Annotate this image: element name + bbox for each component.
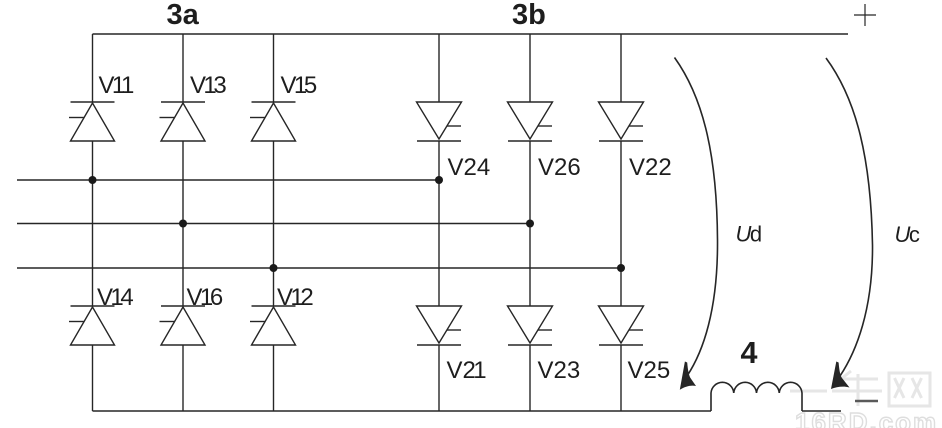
wire V21 branch lower xyxy=(438,345,440,411)
svg-text:V16: V16 xyxy=(187,284,224,311)
svg-text:V23: V23 xyxy=(538,357,581,384)
wire V24 branch upper xyxy=(438,34,440,102)
thyristor V13 xyxy=(160,102,206,141)
arrow curve Ud xyxy=(675,58,718,377)
thyristor V11 xyxy=(69,102,115,141)
wire V11 branch mid xyxy=(92,141,94,306)
svg-text:V13: V13 xyxy=(190,72,227,99)
wire phase a input xyxy=(17,179,439,181)
node phase b V13 xyxy=(179,220,187,228)
svg-text:16RD.com: 16RD.com xyxy=(795,407,938,428)
wire V12 branch lower xyxy=(273,345,275,411)
bottom bus left segment xyxy=(93,410,712,412)
thyristor V21 xyxy=(417,306,462,345)
wire V22 branch mid xyxy=(620,141,622,306)
thyristor V26 xyxy=(508,102,553,141)
svg-text:V12: V12 xyxy=(277,284,314,311)
svg-text:V15: V15 xyxy=(281,72,318,99)
top bus positive rail xyxy=(93,33,849,35)
thyristor V22 xyxy=(599,102,644,141)
inductor 4 xyxy=(711,382,802,411)
bottom bus right segment xyxy=(802,410,841,412)
svg-text:V24: V24 xyxy=(448,154,491,181)
thyristor V15 xyxy=(250,102,296,141)
wire phase b input xyxy=(17,223,530,225)
arrow curve Uc xyxy=(826,58,873,376)
svg-text:4: 4 xyxy=(741,336,758,370)
wire V11 branch upper xyxy=(92,34,94,102)
wire V26 branch mid xyxy=(529,141,531,306)
node phase c V22 xyxy=(617,264,625,272)
wire V15 branch mid xyxy=(273,141,275,306)
svg-text:V22: V22 xyxy=(629,154,672,181)
wire V22 branch upper xyxy=(620,34,622,102)
wire V13 branch mid xyxy=(182,141,184,306)
minus terminal xyxy=(855,400,878,402)
svg-text:3a: 3a xyxy=(167,0,200,31)
thyristor V23 xyxy=(508,306,553,345)
node phase a V11 xyxy=(89,176,97,184)
wire V13 branch upper xyxy=(182,34,184,102)
wire V15 branch upper xyxy=(273,34,275,102)
svg-text:V25: V25 xyxy=(628,357,671,384)
thyristor V25 xyxy=(599,306,644,345)
node phase c V15 xyxy=(270,264,278,272)
wire V14 branch lower xyxy=(92,345,94,411)
svg-text:Ud: Ud xyxy=(736,222,763,247)
svg-text:V11: V11 xyxy=(99,72,135,99)
svg-text:V26: V26 xyxy=(538,154,581,181)
thyristor V24 xyxy=(417,102,462,141)
watermark 一牛网 16RD.com xyxy=(790,371,930,406)
wire phase c input xyxy=(17,267,621,269)
node phase a V24 xyxy=(435,176,443,184)
thyristor V12 xyxy=(250,306,296,345)
wire V16 branch lower xyxy=(182,345,184,411)
thyristor V14 xyxy=(69,306,115,345)
wire V24 branch mid xyxy=(438,141,440,306)
svg-text:3b: 3b xyxy=(512,0,546,31)
wire V23 branch lower xyxy=(529,345,531,411)
wire V26 branch upper xyxy=(529,34,531,102)
svg-text:V21: V21 xyxy=(447,357,487,384)
plus terminal xyxy=(854,4,876,26)
wire V25 branch lower xyxy=(620,345,622,411)
svg-text:Uc: Uc xyxy=(895,222,920,247)
svg-text:V14: V14 xyxy=(97,284,134,311)
arrowhead Ud xyxy=(680,362,696,390)
thyristor V16 xyxy=(160,306,206,345)
node phase b V26 xyxy=(526,220,534,228)
arrowhead Uc xyxy=(831,362,850,390)
